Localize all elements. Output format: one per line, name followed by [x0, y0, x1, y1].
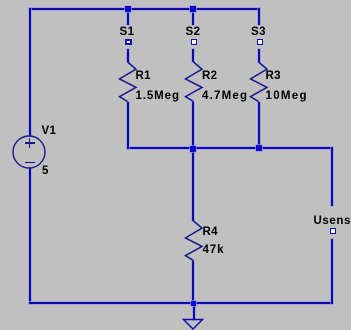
node junction mid rail at R2/R4	[190, 146, 196, 152]
wire S1 to R1 lead	[127, 49, 129, 63]
voltage source V1 circle	[12, 135, 46, 169]
resistor R2 name label	[202, 71, 217, 83]
resistor R4 name label	[203, 227, 218, 239]
resistor R4 body	[183, 221, 204, 261]
resistor R4 value label	[203, 245, 225, 257]
voltage source V1 value label	[42, 166, 49, 178]
resistor R1 body	[117, 62, 138, 102]
resistor R2 value label	[202, 91, 248, 103]
resistor R3 value label	[266, 91, 308, 103]
wire right vertical upper	[331, 147, 333, 206]
switch S1 pin square	[125, 39, 132, 45]
wire mid rail	[127, 147, 334, 149]
resistor R3 body	[248, 62, 269, 102]
wire R4 bottom lead	[192, 261, 194, 305]
node Usens label	[314, 216, 351, 228]
node junction top rail at S1	[125, 6, 131, 12]
resistor R2 body	[183, 62, 204, 102]
node Usens pin square	[330, 228, 336, 234]
resistor R1 name label	[136, 71, 151, 83]
switch S1 label	[120, 27, 135, 39]
voltage source V1 minus sign	[25, 162, 35, 164]
voltage source V1 plus sign	[25, 142, 35, 144]
resistor R3 name label	[266, 71, 281, 83]
voltage source V1 name label	[42, 126, 57, 138]
switch S3 label	[251, 27, 266, 39]
wire left vertical upper	[29, 8, 31, 136]
switch S2 label	[186, 27, 201, 39]
wire right vertical lower	[331, 239, 333, 304]
wire R3 bottom lead	[258, 102, 260, 149]
switch S2 pin square	[191, 39, 197, 45]
ground symbol	[182, 318, 204, 330]
node junction top rail at S2	[190, 6, 196, 12]
wire S3 vertical from rail corner	[258, 8, 260, 25]
resistor R1 value label	[136, 91, 180, 103]
wire S1 stub from top rail	[127, 8, 129, 25]
switch S3 pin square	[257, 39, 263, 45]
node junction bottom rail at ground	[191, 301, 196, 306]
wire left vertical lower	[29, 168, 31, 304]
wire R4 top lead	[192, 148, 194, 221]
wire R1 bottom lead	[127, 102, 129, 149]
wire S3 to R3 lead	[258, 49, 260, 63]
wire bottom rail	[29, 302, 333, 304]
wire ground stem	[193, 303, 195, 320]
wire S2 to R2 lead	[192, 49, 194, 63]
wire S2 stub from top rail	[192, 8, 194, 25]
node junction mid rail at R3	[256, 145, 262, 151]
wire R2 bottom lead	[192, 102, 194, 149]
wire top rail	[29, 8, 260, 10]
